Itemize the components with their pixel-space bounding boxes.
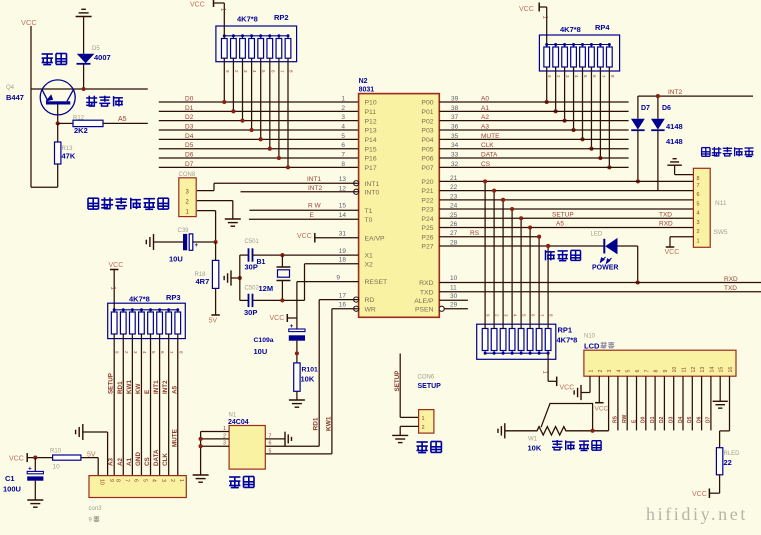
net label RXD (right edge) — [724, 276, 738, 283]
svg-text:DATA: DATA — [481, 152, 498, 159]
svg-text:P07: P07 — [421, 165, 433, 172]
pin number 28 — [450, 239, 458, 246]
net label CS (rotated) — [144, 457, 151, 466]
RP4 lead 3 — [563, 67, 571, 123]
svg-text:14: 14 — [709, 367, 715, 373]
pin circle WR — [354, 306, 359, 311]
svg-text:2: 2 — [697, 229, 700, 235]
svg-text:28: 28 — [450, 239, 458, 246]
svg-text:ALE/P: ALE/P — [414, 298, 434, 305]
pin number 1 — [341, 96, 345, 103]
net label D6 — [185, 152, 194, 159]
net label TXD (switch) — [659, 212, 672, 219]
svg-text:CON8: CON8 — [179, 172, 196, 178]
svg-text:30P: 30P — [244, 308, 257, 317]
svg-text:+: + — [28, 466, 32, 473]
pin number 33 — [451, 152, 459, 159]
RP1 lead 3 to P22 — [501, 198, 509, 329]
label 9芯 — [89, 516, 100, 523]
net label INT1 (rotated) — [153, 380, 160, 394]
svg-text:A1: A1 — [481, 105, 489, 112]
ground (CON6) — [392, 435, 408, 442]
svg-text:SETUP: SETUP — [108, 373, 115, 394]
RP1 lead 5 to P24 — [519, 216, 527, 328]
wire P24 row — [439, 217, 693, 219]
RP3 lead 3 wire (net KW1/A1) — [132, 335, 138, 476]
svg-text:CLK: CLK — [481, 142, 494, 149]
power 5V (R18 bottom) — [209, 315, 220, 325]
ground (24C04 left) — [193, 475, 209, 482]
net label A5 (rotated) — [171, 385, 178, 394]
svg-text:6: 6 — [697, 192, 700, 198]
svg-text:10K: 10K — [301, 375, 315, 384]
svg-text:P23: P23 — [421, 207, 433, 214]
pin number 8 — [341, 161, 345, 168]
pin number 29 — [450, 302, 458, 309]
svg-text:INT2: INT2 — [668, 89, 682, 96]
svg-text:T0: T0 — [365, 217, 373, 224]
svg-text:3: 3 — [607, 370, 613, 373]
value 10K (W1) — [528, 444, 542, 453]
svg-text:X2: X2 — [365, 261, 374, 268]
label C1 — [5, 474, 15, 483]
wire CON8 pin1 down — [197, 211, 216, 242]
net label A5 (R12) — [118, 116, 127, 123]
pin circle PSEN — [439, 306, 444, 311]
wire CON6 pin2 to ground — [400, 426, 418, 435]
label RP1 — [558, 326, 573, 335]
svg-text:RXD: RXD — [659, 221, 673, 228]
svg-text:30: 30 — [450, 293, 458, 300]
svg-text:2: 2 — [422, 425, 425, 431]
svg-text:LCD: LCD — [584, 342, 600, 351]
net label SETUP (rotated) — [394, 371, 401, 392]
RP3 lead 1 wire (net SETUP/A3) — [114, 335, 120, 476]
LCD pin5 stub (RW) — [622, 376, 628, 430]
RP3 lead 7 wire (net INT2/CLK) — [169, 335, 175, 476]
svg-text:P06: P06 — [421, 156, 433, 163]
wire INT0 line — [241, 191, 359, 193]
svg-text:RD1: RD1 — [117, 381, 124, 394]
pin 1 label (RP4) — [542, 16, 548, 20]
power VCC (RP1) — [560, 385, 575, 392]
wire D2 — [159, 120, 359, 122]
pin 1 label (RP1) — [542, 371, 548, 375]
svg-text:29: 29 — [450, 302, 458, 309]
RP1 lead 1 to P20 — [483, 179, 491, 328]
connector CON8 — [179, 178, 196, 217]
svg-text:N11: N11 — [715, 200, 727, 207]
wire D0 — [159, 101, 359, 103]
svg-text:D6: D6 — [662, 105, 671, 112]
wire TXD long line — [439, 291, 761, 293]
svg-text:D7: D7 — [706, 416, 712, 423]
svg-text:POWER: POWER — [592, 265, 618, 272]
svg-text:VCC: VCC — [560, 385, 575, 392]
value 30P (C501) — [245, 263, 258, 272]
svg-text:12M: 12M — [259, 284, 274, 293]
wire X1 line — [280, 253, 358, 257]
node dot C39/CON8-1/R18 — [214, 240, 218, 244]
text POWER — [592, 265, 618, 272]
net label RXD (switch) — [659, 221, 673, 228]
wire P27 row — [439, 245, 604, 247]
value 10U (C109a) — [254, 347, 268, 356]
svg-text:RP3: RP3 — [166, 293, 181, 302]
svg-text:10U: 10U — [254, 347, 268, 356]
W1 wiper — [541, 404, 593, 431]
svg-text:3: 3 — [160, 479, 166, 482]
svg-text:C109a: C109a — [254, 337, 274, 344]
net label CLK (rotated) — [162, 453, 169, 466]
net label D1 — [185, 105, 194, 112]
svg-text:24C04: 24C04 — [228, 419, 249, 426]
svg-text:VCC: VCC — [297, 233, 312, 240]
svg-text:32: 32 — [451, 161, 459, 168]
svg-text:D5: D5 — [185, 142, 194, 149]
capacitor C502 30P — [240, 294, 305, 307]
label con3 — [89, 506, 103, 512]
wire T1 line — [249, 209, 358, 211]
net label A3 — [481, 124, 489, 131]
svg-text:11: 11 — [682, 367, 688, 372]
svg-text:VCC: VCC — [519, 6, 534, 13]
RP4 lead 8 — [607, 67, 615, 169]
RLED to VCC — [709, 488, 719, 498]
RP3 lead 8 wire (net A5/MUTE) — [178, 335, 184, 476]
LCD pin9 stub (D2) — [659, 376, 665, 430]
value 24C04 — [228, 419, 249, 426]
LCD pin16 to RLED — [720, 376, 730, 448]
svg-text:5: 5 — [697, 201, 700, 207]
value 10U (C39) — [169, 255, 183, 264]
pin number 7 — [341, 152, 345, 159]
resistor pack RP1 4K7*8 — [477, 324, 556, 359]
svg-text:SW5: SW5 — [714, 229, 728, 236]
svg-text:19: 19 — [339, 248, 347, 255]
svg-text:KW: KW — [135, 383, 142, 394]
svg-text:INT2: INT2 — [162, 380, 169, 394]
node dot LED-RXD — [636, 280, 640, 284]
RP1 lead 7 to P26 — [537, 235, 545, 329]
svg-text:10K: 10K — [528, 444, 542, 453]
text 不插 (CON6) — [417, 442, 442, 453]
svg-text:15: 15 — [339, 203, 347, 210]
svg-text:8: 8 — [697, 176, 700, 182]
ground (above diode D5) — [76, 9, 92, 54]
text 接编码开关 — [702, 147, 754, 157]
pin number 12 — [339, 185, 347, 192]
svg-text:4K7*8: 4K7*8 — [237, 15, 258, 24]
svg-text:3: 3 — [341, 114, 345, 121]
net label A5 (P25) — [556, 221, 564, 228]
DIP switch N11 SW5 — [693, 168, 710, 247]
pin number 19 — [339, 248, 347, 255]
node dot D7-P20 — [636, 179, 640, 183]
watermark hifidiy.net — [646, 504, 748, 524]
svg-text:VCC: VCC — [190, 2, 205, 9]
label N2 — [359, 78, 368, 85]
svg-text:TXD: TXD — [724, 285, 737, 292]
wire D1 — [159, 110, 359, 112]
RP4 lead 2 — [554, 67, 562, 113]
pin number 27 — [450, 230, 458, 237]
svg-text:37: 37 — [451, 114, 459, 121]
diode D6 4148 — [651, 96, 665, 191]
power VCC (RP3) — [109, 262, 124, 312]
power VCC (switch) — [665, 249, 680, 256]
chip left pin names — [365, 100, 388, 314]
svg-text:2K2: 2K2 — [74, 126, 88, 135]
net label CS — [481, 161, 491, 168]
RP2 output lead 1 to D0 — [222, 58, 230, 104]
svg-text:9: 9 — [108, 479, 114, 482]
net label D7 — [185, 161, 194, 168]
label R18 — [195, 272, 207, 278]
svg-text:N1: N1 — [229, 413, 237, 419]
svg-text:5V: 5V — [87, 452, 96, 459]
pin number 23 — [450, 193, 458, 200]
svg-text:26: 26 — [450, 221, 458, 228]
svg-text:P25: P25 — [421, 225, 433, 232]
pin number 38 — [451, 105, 459, 112]
svg-text:4K7*8: 4K7*8 — [560, 25, 581, 34]
svg-text:A2: A2 — [117, 457, 124, 466]
ground (con3 pin9) — [76, 424, 108, 476]
svg-text:X1: X1 — [365, 253, 374, 260]
pin number 15 — [339, 203, 347, 210]
pin circle INT0 — [354, 189, 359, 194]
pin number 14 — [339, 212, 347, 219]
svg-text:INT1: INT1 — [307, 176, 321, 183]
svg-text:A0: A0 — [481, 96, 489, 103]
svg-text:1: 1 — [223, 426, 226, 432]
svg-text:RD1: RD1 — [313, 417, 320, 430]
node dot D5-collector — [82, 87, 86, 91]
svg-text:MUTE: MUTE — [171, 429, 178, 447]
value 30P (C502) — [244, 308, 257, 317]
pin circle RD — [354, 297, 359, 302]
svg-text:16: 16 — [339, 301, 347, 308]
svg-text:R W: R W — [308, 203, 322, 210]
net label SETUP (P24) — [552, 212, 574, 219]
pin number 4 — [341, 124, 345, 131]
pin number 37 — [451, 114, 459, 121]
label CON8 — [179, 172, 196, 178]
svg-text:CS: CS — [481, 161, 491, 168]
svg-text:P15: P15 — [365, 146, 377, 153]
svg-text:RP1: RP1 — [558, 326, 573, 335]
transistor Q4 B447 — [40, 80, 75, 124]
wire RESET bend — [297, 282, 359, 329]
wire D3 — [159, 129, 359, 131]
text 不插 (24C04) — [229, 477, 254, 488]
power VCC (reset) — [270, 314, 297, 322]
pin number 2 — [341, 105, 345, 112]
svg-text:P12: P12 — [365, 118, 377, 125]
net label E — [310, 212, 315, 219]
svg-text:SETUP: SETUP — [394, 371, 401, 392]
svg-text:P27: P27 — [421, 244, 433, 251]
pin number 6 — [341, 142, 345, 149]
capacitor C109a 10U (polarized) — [289, 323, 305, 363]
svg-text:P20: P20 — [421, 179, 433, 186]
label LED — [591, 232, 603, 238]
svg-text:VCC: VCC — [270, 315, 285, 322]
svg-text:P16: P16 — [365, 156, 377, 163]
svg-text:VCC: VCC — [595, 406, 609, 413]
svg-text:W1: W1 — [528, 437, 538, 443]
ground (LCD pin15) — [713, 401, 728, 408]
label N11 — [715, 200, 727, 207]
node dot 24C04 pin2 — [199, 437, 203, 441]
svg-text:8: 8 — [341, 161, 345, 168]
capacitor C1 100U (polarized) — [27, 458, 43, 500]
svg-text:INT0: INT0 — [365, 189, 380, 196]
svg-text:35: 35 — [451, 133, 459, 140]
svg-text:R101: R101 — [302, 367, 318, 374]
svg-text:A3: A3 — [108, 457, 115, 466]
svg-text:27: 27 — [450, 230, 458, 237]
svg-text:23: 23 — [450, 193, 458, 200]
pin number 26 — [450, 221, 458, 228]
RP1 common to VCC — [548, 353, 557, 386]
resistor pack RP2 4K7*8 — [216, 26, 297, 62]
svg-text:EA/VP: EA/VP — [365, 235, 385, 242]
power VCC (RP4) — [519, 3, 547, 48]
net label MUTE (rotated) — [171, 429, 178, 447]
RP1 lead 8 to P27 — [546, 244, 554, 329]
label D6 — [662, 105, 671, 112]
pin 1 label (RP3) — [110, 287, 116, 291]
net label A1 — [481, 105, 489, 112]
value 10 (R10) — [53, 464, 61, 471]
value 47K — [62, 152, 76, 161]
svg-text:13: 13 — [339, 176, 347, 183]
net label E (rotated) — [144, 390, 151, 394]
ground (30P caps) — [224, 270, 240, 285]
label R101 — [302, 367, 318, 374]
svg-text:31: 31 — [339, 230, 347, 237]
svg-text:KW1: KW1 — [126, 380, 133, 394]
wire RXD long line — [439, 282, 761, 284]
svg-text:8: 8 — [114, 479, 120, 482]
RP3 lead 5 wire (net E/CS) — [151, 335, 157, 476]
node dot gnd tee — [238, 276, 242, 280]
svg-text:P10: P10 — [365, 100, 377, 107]
net label A2 (rotated) — [117, 457, 124, 466]
text 不用插 — [86, 96, 123, 107]
svg-text:+: + — [290, 323, 294, 330]
RP1 lead 4 to P23 — [510, 207, 518, 328]
svg-text:100U: 100U — [3, 485, 21, 494]
resistor RLED 22 — [716, 448, 722, 494]
svg-text:22: 22 — [450, 184, 458, 191]
label Q4 — [6, 85, 15, 91]
ground (switch pin8) — [667, 159, 693, 175]
text 不插 (transistor) — [42, 54, 67, 65]
RP2 output lead 8 to D7 — [286, 58, 294, 169]
24C04 pin5 stub — [269, 448, 272, 454]
wire P23 row — [439, 208, 693, 210]
pin number 25 — [450, 212, 458, 219]
pin number 11 — [450, 284, 457, 291]
power VCC (top-left) — [21, 18, 37, 187]
svg-text:D7: D7 — [641, 105, 650, 112]
power VCC (RP2) — [190, 0, 224, 39]
wire D6 — [159, 157, 359, 159]
svg-text:RLED: RLED — [724, 451, 741, 457]
svg-text:13: 13 — [700, 367, 706, 373]
label RP3 — [166, 293, 181, 302]
wire INT2 line — [638, 95, 753, 97]
wire cap common vertical — [239, 255, 241, 300]
svg-text:P22: P22 — [421, 197, 433, 204]
svg-text:4: 4 — [616, 370, 622, 373]
LCD pin11 stub (D4) — [678, 376, 684, 430]
wire DATA row — [439, 157, 628, 159]
24C04 pin7 to ground — [265, 433, 285, 439]
label C39 — [178, 228, 190, 234]
label CON6 — [418, 375, 435, 381]
label W1 — [528, 437, 538, 443]
resistor R13 47K — [31, 123, 61, 187]
diode D7 4148 — [631, 96, 645, 181]
svg-text:P05: P05 — [421, 146, 433, 153]
net label A1 (rotated) — [126, 457, 133, 466]
capacitor C501 30P — [240, 248, 283, 261]
pin number 18 — [339, 257, 347, 264]
label RLED — [724, 451, 741, 457]
svg-text:16: 16 — [728, 367, 734, 373]
label 4K7*8 (RP3) — [129, 295, 150, 304]
svg-text:5: 5 — [269, 448, 272, 454]
svg-text:Q4: Q4 — [6, 85, 15, 91]
svg-text:TXD: TXD — [420, 289, 434, 296]
svg-text:4K7*8: 4K7*8 — [557, 336, 578, 345]
pin number 32 — [451, 161, 459, 168]
svg-text:GND: GND — [135, 452, 142, 466]
svg-text:CLK: CLK — [162, 453, 169, 466]
svg-text:D5: D5 — [92, 46, 100, 52]
svg-text:6: 6 — [341, 142, 345, 149]
svg-text:2: 2 — [598, 370, 604, 373]
svg-text:4K7*8: 4K7*8 — [129, 295, 150, 304]
label SW5 — [714, 229, 728, 236]
net label A3 (rotated) — [108, 457, 115, 466]
LCD pin8 stub (D1) — [650, 376, 656, 430]
svg-text:D4: D4 — [185, 133, 194, 140]
net label INT2 (on INT0 pin) — [308, 185, 322, 192]
net label CLK — [481, 142, 494, 149]
svg-text:D3: D3 — [669, 416, 675, 423]
label C109a — [254, 337, 274, 344]
RP3 lead 2 wire (net RD1/A2) — [123, 335, 129, 476]
label C501 — [245, 239, 260, 245]
svg-text:INT1: INT1 — [365, 181, 380, 188]
svg-text:C502: C502 — [245, 286, 260, 292]
svg-text:C1: C1 — [5, 474, 15, 483]
value 4148 (D6) — [666, 122, 683, 131]
svg-text:10: 10 — [672, 367, 678, 373]
svg-text:VCC: VCC — [692, 491, 707, 498]
pin number 3 — [341, 114, 345, 121]
ground (R101) — [289, 400, 305, 407]
svg-text:B447: B447 — [6, 93, 24, 102]
svg-text:A5: A5 — [171, 385, 178, 394]
wire A0 row — [439, 101, 628, 103]
ground (C39 left) — [146, 234, 183, 250]
